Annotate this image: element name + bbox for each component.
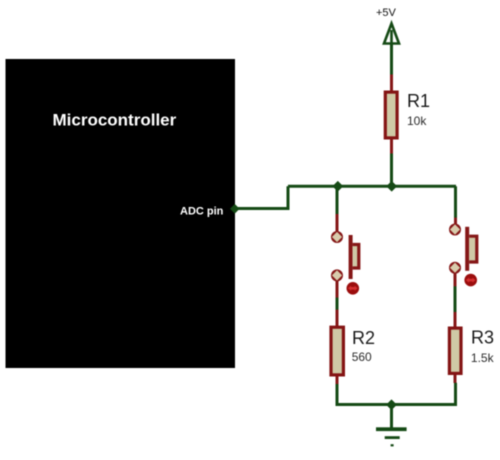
wire R2 to bottom net: [336, 384, 339, 405]
microcontroller U1 body: [6, 59, 236, 368]
svg-text:R2: R2: [352, 328, 375, 348]
label Microcontroller: [53, 110, 177, 129]
wire net to button SW2: [454, 186, 457, 218]
power +5V arrow symbol: [384, 24, 399, 44]
svg-text:R1: R1: [407, 91, 430, 111]
wire SW1 to R2: [336, 298, 339, 310]
pin label ADC pin: [180, 205, 224, 217]
value 1.5k: [471, 351, 495, 365]
resistor R3: [449, 312, 461, 383]
wire R1 to net: [390, 154, 393, 187]
junction node ground: [386, 399, 397, 410]
svg-text:R3: R3: [471, 328, 494, 348]
power +5V label: [376, 7, 397, 19]
button SW2 toggle: [464, 274, 477, 287]
svg-text:ADC pin: ADC pin: [180, 205, 224, 217]
resistor R1: [385, 75, 397, 155]
svg-text:1.5k: 1.5k: [471, 351, 495, 365]
wire to ground: [390, 405, 393, 429]
svg-text:+5V: +5V: [376, 7, 397, 19]
button SW1 toggle: [347, 282, 360, 295]
wire top horizontal net: [288, 185, 456, 188]
wire +5V to R1: [390, 43, 393, 75]
junction node mid: [386, 181, 397, 192]
resistor R2: [331, 310, 343, 385]
wire net to button SW1: [336, 186, 339, 214]
wire ADC pin to corner: [235, 186, 289, 208]
svg-text:Microcontroller: Microcontroller: [53, 110, 177, 129]
node ADC pin: [230, 204, 240, 214]
ground: [376, 427, 407, 446]
value 560: [352, 350, 372, 364]
button SW1: [332, 214, 359, 298]
wire SW2 to R3: [454, 286, 457, 312]
junction node left: [332, 181, 343, 192]
label R3: [471, 328, 494, 348]
value 10k: [407, 114, 427, 128]
label R1: [407, 91, 430, 111]
wire bottom horizontal net: [336, 403, 458, 406]
label R2: [352, 328, 375, 348]
svg-text:10k: 10k: [407, 114, 427, 128]
wire R3 to bottom net: [454, 383, 457, 405]
button SW2: [450, 218, 477, 287]
svg-text:560: 560: [352, 350, 372, 364]
